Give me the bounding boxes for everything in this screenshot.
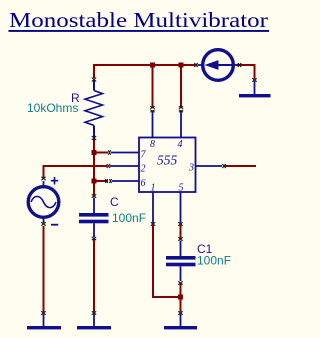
op IC 555 box U1: [139, 138, 196, 193]
current source I1 circle: [203, 50, 234, 81]
tick C1 bottom: [178, 281, 182, 284]
junction at pin4 drop: [179, 63, 184, 68]
tick pin3 connection: [222, 164, 225, 168]
junction at pin8 drop: [150, 63, 155, 68]
wire: resistor bottom to node RC down to cap C: [93, 139, 95, 195]
tick resistor top: [92, 78, 96, 82]
svg-text:100nF: 100nF: [197, 254, 231, 268]
svg-text:5: 5: [179, 183, 184, 194]
capacitor C1 bottom lead: [180, 266, 182, 281]
junction C1 ground net: [178, 295, 183, 300]
svg-text:10kOhms: 10kOhms: [27, 101, 78, 115]
capacitor C plates: [79, 213, 109, 217]
wire: resistor top drop: [93, 64, 95, 78]
555 pin4 lead: [180, 111, 182, 138]
svg-text:Monostable Multivibrator: Monostable Multivibrator: [9, 8, 268, 32]
current source left lead: [198, 64, 203, 66]
tick current source left: [194, 63, 197, 67]
capacitor C bottom lead: [93, 223, 95, 237]
tick pin8 wire end (double): [150, 106, 154, 108]
tick pin2 connection: [107, 164, 110, 168]
wire: node RC to pin7: [94, 152, 108, 154]
voltage source sine: [31, 196, 56, 207]
tick cap C bottom: [92, 237, 96, 240]
wire: pin1 down and right to C1 ground net: [153, 225, 181, 297]
wire: pin5 to C1: [180, 225, 182, 239]
tick C1 top: [178, 237, 182, 240]
voltage source VG circle: [28, 187, 59, 218]
voltage source minus: [51, 224, 58, 226]
svg-text:1: 1: [151, 183, 156, 194]
wire: node RC to pin6: [94, 180, 108, 182]
ground bottom left bar: [27, 326, 61, 329]
current source right lead: [234, 64, 238, 66]
tick pin7 connection: [108, 150, 110, 154]
tick source minus terminal: [41, 222, 45, 225]
tick current source right: [238, 63, 241, 67]
wire: source minus to ground: [43, 226, 45, 312]
555 pin8 lead: [152, 111, 154, 138]
tick resistor bottom: [92, 136, 96, 140]
wire: source plus to pin2: [44, 165, 108, 178]
555 pin6 lead: [112, 180, 139, 182]
tick ground C1: [178, 311, 182, 314]
wire: pin3 output: [225, 165, 256, 167]
555 pin2 lead: [110, 165, 139, 167]
svg-text:C: C: [110, 195, 119, 209]
capacitor C1 top lead: [180, 241, 182, 257]
ground bottom right lead: [180, 314, 182, 326]
wire: C1 bottom to ground: [180, 283, 182, 312]
svg-text:100nF: 100nF: [112, 211, 146, 225]
voltage source top lead: [43, 181, 45, 187]
svg-text:8: 8: [150, 139, 155, 150]
junction node RC pin6: [92, 179, 97, 184]
resistor R zigzag: [85, 91, 103, 126]
tick pin5 wire end: [178, 222, 182, 225]
svg-text:3: 3: [188, 163, 194, 174]
ground bottom left lead: [43, 314, 45, 326]
ground bottom middle lead: [93, 314, 95, 326]
svg-text:4: 4: [178, 139, 183, 150]
resistor R leads: [93, 80, 95, 138]
voltage source plus: [51, 177, 58, 185]
wire: top net VCC horizontal: [94, 64, 196, 66]
wire: pin8 drop: [152, 65, 154, 107]
555 pin5 lead: [180, 192, 182, 223]
555 pin1 lead: [152, 192, 154, 223]
svg-text:2: 2: [141, 164, 146, 175]
tick pin1 wire end: [151, 222, 155, 225]
ground bottom middle bar: [77, 326, 111, 329]
ground top right bar: [239, 94, 271, 97]
svg-text:555: 555: [157, 153, 178, 168]
tick ground middle: [92, 311, 96, 314]
wire: cap C bottom to ground: [93, 239, 95, 312]
ground bottom right bar: [164, 326, 197, 329]
tick cap C top: [92, 194, 96, 197]
capacitor C top lead: [93, 198, 95, 214]
voltage source bottom lead: [43, 218, 45, 223]
tick ground top right: [252, 78, 256, 81]
tick pin4 wire end (double): [179, 106, 183, 108]
current source arrow: [216, 64, 234, 66]
ground top right lead: [254, 81, 256, 94]
555 pin7 lead: [111, 152, 139, 154]
tick pin6 connection (double): [105, 179, 107, 183]
tick ground left: [41, 311, 45, 314]
wire: pin4 drop: [180, 65, 182, 107]
pin tick marks: [41, 63, 256, 315]
junction node RC pin7: [92, 150, 97, 155]
svg-text:6: 6: [141, 178, 146, 189]
555 pin3 lead: [196, 165, 223, 167]
capacitor C1 plates: [166, 256, 196, 260]
wire: current source right to ground: [236, 65, 255, 79]
tick source plus terminal: [41, 177, 45, 180]
